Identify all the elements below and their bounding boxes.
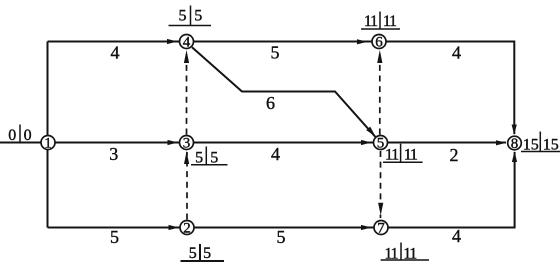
- svg-text:5: 5: [271, 43, 280, 63]
- wire left column 1 up/down: [47, 42, 49, 228]
- svg-text:5: 5: [189, 245, 197, 262]
- wire top row 1-4-6 and corner down to 8: [48, 42, 515, 135]
- dashed wire 3-4: [186, 51, 188, 135]
- svg-text:5: 5: [110, 227, 119, 247]
- dashed arrowhead into node 6: [377, 50, 382, 63]
- node 8 circle: [508, 136, 522, 150]
- dashed arrowhead into node 7: [378, 203, 383, 216]
- svg-text:11: 11: [404, 147, 418, 164]
- wire middle row 1-3-5-8: [0, 142, 506, 144]
- node 6 circle: [372, 35, 386, 49]
- svg-text:0: 0: [24, 127, 32, 144]
- svg-text:4: 4: [271, 144, 280, 164]
- arrowhead bend into node 5: [366, 127, 375, 137]
- dashed wire 2-3: [186, 152, 188, 220]
- svg-text:4: 4: [452, 226, 461, 246]
- svg-text:3: 3: [183, 135, 191, 151]
- arrowhead into node 3: [168, 140, 179, 145]
- svg-text:11: 11: [364, 13, 378, 30]
- svg-text:3: 3: [109, 144, 118, 164]
- node 7 circle: [374, 221, 388, 235]
- node 2 circle: [180, 221, 194, 235]
- svg-text:1: 1: [44, 135, 52, 151]
- svg-text:6: 6: [266, 93, 275, 113]
- arrowhead into node 6: [357, 39, 368, 44]
- svg-text:2: 2: [183, 220, 191, 236]
- arrowhead into node 8 from top: [512, 125, 517, 136]
- svg-text:4: 4: [111, 43, 120, 63]
- svg-text:4: 4: [452, 43, 461, 63]
- arrowhead into node 5: [361, 140, 372, 145]
- node 5 circle: [374, 136, 388, 150]
- svg-text:0: 0: [8, 127, 16, 144]
- svg-text:11: 11: [385, 147, 399, 164]
- svg-text:5: 5: [377, 135, 385, 151]
- svg-text:6: 6: [375, 34, 383, 50]
- wire bend 4-5: [192, 47, 376, 137]
- arrowhead into node 2: [169, 225, 180, 230]
- wire bottom row 1-2-7 and corner up to 8: [48, 152, 515, 228]
- svg-text:5: 5: [179, 8, 187, 25]
- svg-text:8: 8: [511, 136, 519, 152]
- dashed arrowhead into node 4: [184, 50, 189, 63]
- node 3 circle: [180, 136, 194, 150]
- dashed arrowhead into node 3: [184, 151, 189, 164]
- svg-text:7: 7: [377, 220, 385, 236]
- svg-text:5: 5: [277, 227, 286, 247]
- arrowhead into node 7: [361, 225, 372, 230]
- arrowhead into node 8 from left: [496, 140, 507, 145]
- svg-text:2: 2: [450, 145, 459, 165]
- arrowhead into node 8 from bottom: [512, 151, 517, 162]
- node 4 circle: [180, 35, 194, 49]
- svg-text:11: 11: [383, 13, 397, 30]
- node 1 circle: [41, 136, 55, 150]
- dashed wire 5-7: [380, 151, 382, 218]
- svg-text:5: 5: [203, 245, 211, 262]
- svg-text:4: 4: [183, 34, 191, 50]
- arrowhead into node 4: [167, 39, 178, 44]
- dashed wire 5-6: [379, 51, 381, 135]
- svg-text:5: 5: [194, 8, 202, 25]
